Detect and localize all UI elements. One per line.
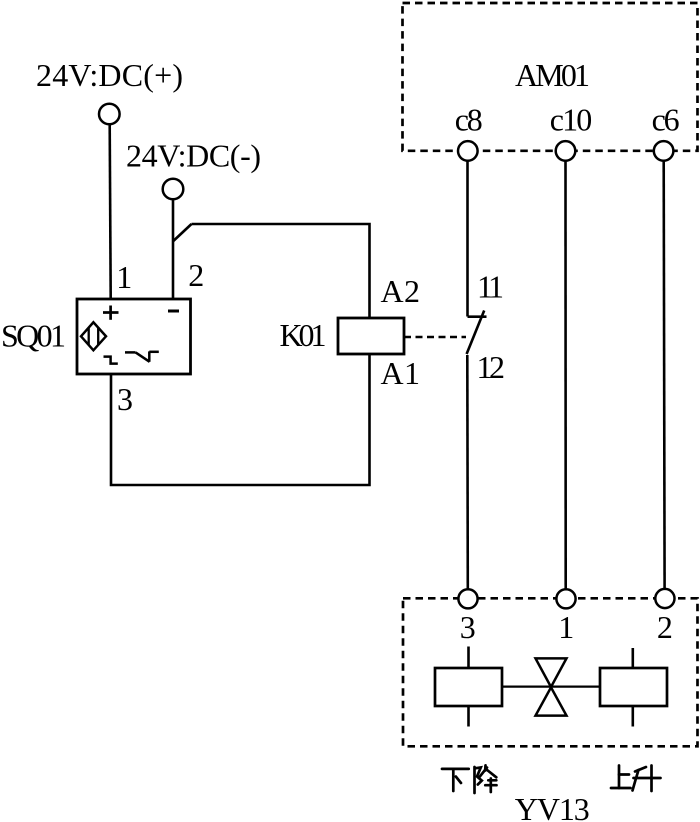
svg-text:24V:DC(-): 24V:DC(-) bbox=[126, 138, 261, 174]
terminal c10 bbox=[556, 141, 576, 161]
svg-text:12: 12 bbox=[477, 349, 506, 385]
label jiang (descend) char bbox=[475, 765, 497, 793]
terminal 24V+ bbox=[99, 104, 120, 125]
dashed link K01 to contact bbox=[404, 336, 466, 339]
svg-text:c6: c6 bbox=[652, 101, 680, 137]
wire contact 12 down to terminal 3 bbox=[466, 355, 469, 589]
svg-text:1: 1 bbox=[558, 609, 574, 645]
SQ01 proximity diamond bbox=[81, 322, 106, 350]
label shang (up) char bbox=[611, 766, 631, 789]
label xia (down) char bbox=[442, 769, 469, 791]
terminal 3 bbox=[458, 589, 477, 608]
svg-text:1: 1 bbox=[116, 259, 132, 295]
solenoid coil left (3) bbox=[435, 668, 502, 706]
svg-text:3: 3 bbox=[117, 381, 133, 417]
relay coil K01 bbox=[338, 318, 404, 354]
wire c10 down to terminal 1 bbox=[564, 161, 567, 590]
svg-text:24V:DC(+): 24V:DC(+) bbox=[36, 57, 183, 93]
svg-text:2: 2 bbox=[188, 257, 204, 293]
svg-text:A2: A2 bbox=[381, 273, 421, 309]
svg-text:AM01: AM01 bbox=[515, 57, 590, 93]
label sheng (rise) char bbox=[633, 766, 661, 792]
svg-text:YV13: YV13 bbox=[515, 791, 590, 822]
wire c8 down to contact bbox=[466, 161, 469, 317]
SQ01 step symbol bbox=[104, 357, 118, 364]
solenoid coil right (2) bbox=[600, 668, 667, 706]
terminal 1 bbox=[556, 589, 575, 608]
svg-text:2: 2 bbox=[657, 609, 673, 645]
SQ01 diamond inner lines bbox=[89, 327, 99, 345]
module YV13 dashed box bbox=[403, 598, 698, 746]
sensor SQ01 box bbox=[77, 299, 191, 374]
wire 24V+ to SQ01 pin1 bbox=[110, 125, 111, 299]
svg-text:c10: c10 bbox=[550, 101, 593, 137]
svg-text:SQ01: SQ01 bbox=[1, 318, 66, 354]
wire 24V- to SQ01 pin2 bbox=[172, 200, 175, 299]
valve link bar bbox=[502, 685, 600, 687]
solenoid right stubs bbox=[631, 648, 634, 727]
solenoid left stubs bbox=[467, 647, 470, 727]
SQ01 NC contact symbol bbox=[125, 351, 159, 361]
module AM01 dashed box bbox=[403, 3, 698, 151]
svg-text:K01: K01 bbox=[280, 317, 327, 353]
wire K01 A1 down and left to SQ01 pin3 bbox=[111, 354, 370, 485]
terminal c6 bbox=[654, 141, 674, 161]
svg-text:A1: A1 bbox=[381, 355, 421, 391]
wire top rail to K01 bbox=[192, 224, 370, 318]
wire c6 down to terminal 2 bbox=[662, 161, 665, 589]
terminal 2 bbox=[655, 589, 674, 608]
terminal 24V- bbox=[163, 179, 184, 200]
terminal c8 bbox=[458, 141, 478, 161]
SQ01 plus mark bbox=[103, 306, 119, 320]
contact seat tick bbox=[468, 315, 487, 318]
wire jog diagonal from minus line to top rail bbox=[173, 224, 192, 242]
contact blade 11-12 bbox=[467, 311, 485, 355]
SQ01 minus mark bbox=[168, 310, 179, 313]
svg-text:11: 11 bbox=[477, 269, 504, 305]
svg-text:c8: c8 bbox=[455, 101, 483, 137]
svg-text:3: 3 bbox=[460, 609, 476, 645]
valve bowtie bbox=[536, 658, 567, 715]
